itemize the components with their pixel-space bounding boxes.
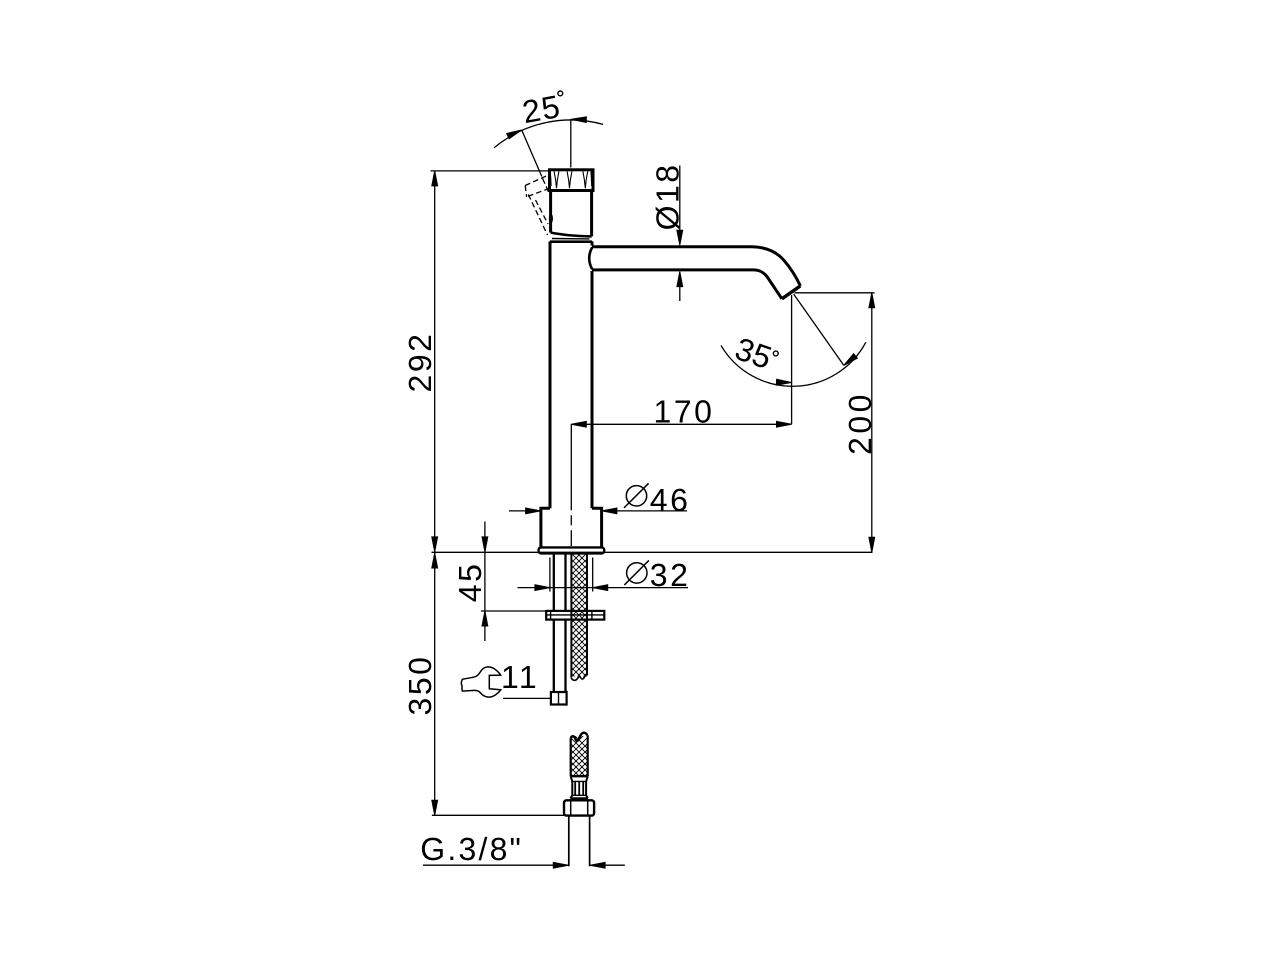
faucet axis extension line (570, 424, 572, 546)
dimension dia18 lines (679, 166, 681, 302)
connection pipe G3/8 (569, 816, 590, 867)
handle body (551, 191, 592, 237)
dimension 350 bottom extension line (432, 814, 564, 816)
svg-text:25: 25 (520, 88, 564, 130)
leader line to nut (503, 697, 552, 699)
mounting bracket (546, 611, 604, 620)
25 deg tilted axis line (522, 130, 542, 176)
handle pivot dot (549, 214, 553, 224)
knurl marks (554, 171, 559, 188)
column top edge (550, 240, 592, 243)
hose upper break line (571, 675, 587, 680)
svg-text:292: 292 (402, 332, 438, 393)
spout-column fillet (589, 247, 592, 269)
bonnet ring (552, 238, 590, 240)
svg-text:45: 45 (452, 562, 488, 603)
svg-text:200: 200 (842, 391, 878, 455)
hose crosshatch (570, 546, 588, 702)
svg-text:170: 170 (654, 393, 715, 429)
svg-text:46: 46 (650, 482, 691, 518)
dimension dia46 lines (509, 510, 687, 512)
base flare (541, 508, 602, 547)
200 top extension (795, 292, 875, 294)
25 deg arc arrowheads (507, 130, 522, 139)
svg-text:G.3/8": G.3/8" (420, 831, 523, 867)
dia32 extension lines (550, 558, 593, 592)
35 deg slanted stream line (794, 294, 844, 365)
wrench 11 icon (461, 667, 501, 697)
hose upper boundary (571, 554, 587, 678)
dimension 45 line (484, 522, 486, 642)
dimension 170 line (571, 423, 791, 425)
hose crimp collar (570, 775, 588, 777)
dashed handle outline (open position) (525, 175, 549, 235)
dimension 45 extension (481, 610, 546, 612)
dimension 292 line (434, 171, 436, 815)
35 deg arc (721, 342, 866, 386)
dimension dia32 lines (518, 587, 689, 589)
hose lower break line (571, 733, 588, 741)
spout tube (592, 247, 800, 286)
faucet column body (550, 241, 592, 508)
svg-text:11: 11 (501, 659, 539, 695)
35 deg degree symbol (773, 351, 778, 356)
countertop line (432, 551, 873, 553)
35 deg arc arrowheads (776, 379, 791, 385)
25 deg vertical axis line (570, 119, 572, 168)
dimension 200 line (871, 293, 873, 553)
hose nut (564, 800, 594, 815)
rod end nut (551, 692, 567, 705)
threaded rod (554, 554, 566, 693)
hose lower boundary (571, 735, 588, 776)
spout tip vertical extension (791, 295, 793, 424)
spout outlet face (782, 286, 801, 299)
svg-text:32: 32 (650, 557, 691, 593)
25 deg degree symbol (558, 91, 563, 96)
svg-text:Ø18: Ø18 (650, 162, 686, 230)
base plate (539, 547, 605, 553)
dimension dia46 symbol (626, 486, 646, 506)
dimension G3/8 lines (423, 864, 625, 866)
25 deg arc (494, 120, 603, 148)
dimension dia32 symbol (627, 563, 647, 583)
handle knurled cap (550, 170, 594, 191)
svg-text:350: 350 (402, 655, 438, 716)
dimension 350 arrows (432, 553, 438, 568)
dimension 292 top extension line (431, 170, 550, 172)
